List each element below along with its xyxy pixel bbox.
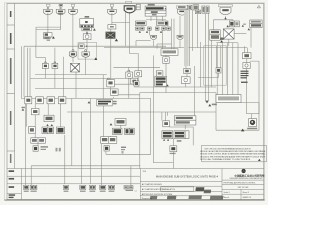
wire C1 feed L — [113, 66, 160, 68]
ch3 box M2 — [163, 121, 170, 127]
wire v x71.8 — [71, 98, 73, 165]
wire B10 drop a — [243, 46, 245, 53]
block B2 multi-cell — [80, 16, 94, 28]
row box RB1 — [25, 97, 32, 104]
ch3 dark cluster A — [162, 131, 173, 139]
fold mark triangle top-right — [257, 5, 260, 8]
terminal T4 — [108, 4, 117, 15]
wire v x64.8 — [64, 135, 66, 184]
strip divider 3 — [7, 93, 15, 95]
bottom border emphasis — [4, 199, 264, 201]
wire h y157.9 — [106, 153, 151, 155]
wire B2 to B4 — [86, 31, 88, 34]
pair box P2 — [52, 62, 58, 69]
wire flag1 drop — [153, 40, 155, 46]
block B5 xbox — [106, 32, 118, 41]
ch1 wide box K4 — [31, 138, 46, 143]
wire v x132 — [130, 166, 132, 186]
company logo — [242, 169, 246, 173]
wire v x37.5 — [35, 46, 37, 57]
block B1 — [44, 33, 55, 41]
title left rule 1 — [140, 180, 222, 182]
header cell text W2 — [9, 186, 15, 188]
block B8 — [157, 21, 168, 26]
strip label 2 — [10, 33, 12, 44]
ch1 dark pair A — [42, 127, 54, 134]
wire gear in — [251, 114, 253, 119]
box D6 — [184, 68, 190, 73]
dark triangle N2 — [241, 129, 244, 132]
history sub-box — [161, 187, 194, 191]
junction dot — [86, 46, 87, 47]
narrow box a — [202, 6, 205, 13]
wire h y94.8 — [118, 94, 140, 96]
terminal T2 — [56, 4, 65, 15]
wire band to b183 — [185, 66, 187, 68]
band cluster 5 — [89, 185, 95, 192]
block B9 — [226, 21, 245, 27]
wire flag2 drop — [179, 40, 181, 47]
box D0 top — [161, 49, 178, 56]
band cluster 1 — [24, 185, 29, 192]
wire box161 link — [165, 55, 167, 56]
wire h y98.4 — [21, 97, 150, 99]
flag F2 mid — [177, 35, 183, 39]
left binding strip line — [14, 4, 16, 169]
minibox row m4 — [155, 27, 159, 30]
wire v x24 — [23, 46, 25, 97]
table header divider — [21, 169, 23, 200]
wire T6 drop — [179, 16, 181, 35]
band cluster 8 — [124, 186, 133, 191]
box D1 circle — [163, 57, 169, 64]
scan noise overlay — [0, 0, 1, 1]
right col box R1 — [242, 53, 251, 59]
wire mini3 to flag — [148, 30, 150, 35]
wire comb v1 — [216, 43, 218, 95]
wire v x196.5 — [194, 66, 196, 116]
wire h y165 — [31, 165, 140, 167]
wire h y74.6 — [35, 74, 107, 76]
wire v x101.5 — [102, 106, 104, 137]
right col box R2 — [243, 63, 250, 69]
strip divider 1 — [7, 24, 15, 26]
header cell text BL/T — [9, 178, 15, 180]
block B10 — [248, 20, 263, 30]
gray bus band — [184, 10, 189, 66]
wire h y40.6 — [136, 40, 151, 42]
wire B4 drop — [86, 40, 88, 50]
flag F3 lower — [69, 50, 76, 58]
wire bus y47.6 — [104, 47, 247, 49]
wire mini5 down — [161, 30, 163, 49]
wire v x110.5 — [110, 136, 112, 137]
wire T4 drop — [111, 13, 113, 25]
box D7 circle — [181, 77, 190, 84]
wire D0 feed corner — [157, 43, 172, 45]
title right rule 3 — [222, 188, 264, 190]
wire h y19.8 — [213, 19, 233, 21]
ch1 dark pair B — [57, 127, 65, 134]
wire B11 drop — [210, 40, 212, 87]
wire h y161 — [153, 162, 173, 164]
block B12 xbox — [220, 29, 234, 43]
title block main divider — [221, 169, 223, 200]
wire B10 drop b — [246, 48, 248, 53]
row box RB3 — [47, 97, 55, 104]
wire h y56 — [36, 57, 46, 59]
border outer trim — [4, 3, 264, 200]
ch2 small dark L3 — [104, 146, 126, 154]
strip label 4 — [10, 111, 12, 125]
block B7 — [135, 21, 146, 26]
row box RB4 — [58, 97, 66, 104]
terminal T5 — [124, 1, 140, 13]
small box inside E2 — [79, 44, 84, 48]
wire pair out b — [54, 69, 56, 89]
wire v x27.5 — [27, 48, 29, 97]
wire bigbox in — [215, 93, 217, 131]
wire B3 to B5 — [110, 29, 112, 32]
narrow box b — [206, 6, 209, 13]
table rule top full width — [7, 168, 264, 170]
wire v x104.5 — [105, 151, 107, 154]
wire v x213.4 — [212, 20, 214, 30]
band cluster 7 — [108, 185, 114, 192]
ch1 box K2 — [44, 115, 54, 126]
block B6 table — [145, 4, 166, 16]
wire gearbox col — [172, 152, 174, 169]
minibox row m5b — [167, 27, 171, 30]
box C1 circletop — [126, 70, 133, 78]
wire T5 drop a — [125, 12, 127, 46]
wire v x25.4 — [24, 104, 26, 185]
block B2 sub — [82, 28, 96, 31]
wire B5 drop — [110, 39, 112, 80]
ch3 tablebox M1 — [174, 116, 196, 125]
arrow m6 — [139, 31, 141, 33]
wire h y88.4 — [35, 87, 110, 89]
terminal T1 — [44, 4, 53, 15]
right col note lines — [241, 71, 249, 83]
header cell text L+PS — [9, 170, 15, 172]
pair box P1 — [42, 62, 48, 69]
cluster D5 dark stack — [155, 76, 169, 86]
wire T1 drop — [47, 13, 49, 33]
wire h y78.4 — [30, 77, 126, 79]
flag F4 lower — [82, 50, 90, 58]
big comb box G — [216, 95, 241, 103]
wire v x30b — [34, 104, 36, 109]
wire v x31.2 — [30, 166, 32, 186]
wire B6 drop 2 — [156, 16, 158, 21]
minibox row m5 — [162, 27, 166, 30]
wire b183 link — [186, 74, 188, 77]
gear box N1 — [247, 119, 257, 130]
wire h y87 — [134, 86, 216, 88]
wire b134 link — [137, 77, 139, 81]
minibox row m1 — [136, 27, 140, 30]
wire b71 out — [128, 78, 130, 98]
wire b181 out — [185, 83, 187, 87]
title block left edge — [139, 169, 141, 200]
wire C1 out — [128, 79, 130, 85]
title right rule 4 — [222, 193, 264, 195]
wire v x103.2 — [102, 75, 104, 106]
terminal T6 — [176, 6, 188, 15]
wire h y84.2 — [114, 83, 134, 85]
ch3 small box M3 — [170, 146, 177, 154]
wire h y89.7 — [140, 92, 216, 94]
minibox row m3 — [148, 27, 152, 30]
wire v x247 — [246, 68, 248, 113]
corner triangle A1 — [94, 57, 97, 60]
signature 4 — [210, 196, 224, 200]
ch2 wide box L2 — [101, 137, 117, 144]
logo inner mark — [243, 170, 245, 173]
ch1 small dark K5 — [33, 146, 61, 152]
wire comb v2 — [221, 43, 223, 95]
wire rightcol out — [246, 59, 248, 63]
block B3 — [108, 25, 116, 29]
box D4 — [156, 71, 163, 76]
stamp scribble 2 — [204, 190, 212, 194]
wire B6 drop 1 — [150, 16, 152, 21]
ch2 dark pair B — [125, 128, 135, 134]
wire B12 drop — [228, 39, 230, 46]
band cluster 6 — [100, 185, 106, 192]
wire v x36 — [35, 27, 37, 46]
signature 1 — [150, 196, 157, 199]
header cell text bottom line2 — [9, 197, 14, 198]
wire pair drop a — [44, 58, 46, 64]
enclosure F — [204, 46, 226, 85]
wire comb v3 — [227, 43, 229, 95]
signature 3 — [188, 195, 202, 199]
flag F1 mid — [151, 35, 157, 39]
table rule 4 left header — [7, 192, 22, 194]
wire v x171.5 — [171, 19, 173, 49]
topright box c — [195, 10, 200, 14]
wire comb top — [216, 42, 237, 44]
wire b79 link — [110, 87, 112, 90]
wire b89 out — [113, 97, 115, 99]
wire v x141.6 — [150, 98, 152, 154]
band cluster 3 — [63, 185, 68, 192]
wire narrowbox drop b — [207, 13, 209, 101]
wire T7 stub — [225, 16, 227, 20]
title right rule 2 — [222, 183, 264, 185]
wire v x233 — [232, 20, 234, 28]
wire bus y46 — [24, 45, 166, 47]
border inner frame — [7, 4, 264, 200]
title left rule 4 — [140, 195, 222, 197]
strip label 3 — [10, 58, 12, 84]
row box RB2 — [36, 97, 44, 104]
wire box161 out — [165, 63, 167, 87]
strip divider 2 — [7, 48, 15, 50]
wire T3 drop — [72, 13, 74, 50]
wire v x174 — [173, 19, 175, 49]
strip label 5 — [10, 154, 12, 163]
xbox X2 — [71, 63, 80, 72]
band cluster 4 — [80, 185, 86, 192]
wire xbox out — [75, 71, 77, 98]
label triangle H — [208, 104, 217, 107]
wire v x30 — [29, 48, 31, 97]
strip divider 4 — [7, 150, 15, 152]
box D2 circle — [135, 71, 142, 77]
wire cluster out — [165, 86, 167, 92]
wire v x193.4 — [191, 10, 193, 51]
ch3 dark cluster B — [163, 131, 189, 142]
wire v x197.3 — [196, 14, 198, 48]
wire comb v4 — [232, 43, 234, 95]
minibox row m2 — [141, 27, 145, 30]
terminal T7 — [218, 4, 232, 19]
block B4 — [83, 32, 91, 39]
wide label box RB5 — [88, 99, 117, 106]
title left rule 3 — [140, 191, 222, 193]
wire v x21.3 — [20, 46, 22, 98]
notes end triangle — [258, 159, 261, 161]
wire v x136.5 — [139, 93, 141, 169]
wire flagbox drop a — [72, 58, 74, 63]
wire pair out a — [44, 69, 46, 79]
notes outline box — [202, 145, 267, 161]
table rule 2 — [7, 175, 140, 177]
wire T2 drop — [60, 13, 62, 30]
ch1 box K1 — [32, 109, 40, 115]
wire v x190.8 — [189, 10, 191, 66]
ch1 box K3 — [29, 127, 36, 134]
wire narrowbox drop a — [204, 13, 206, 101]
box B-mid dotted — [131, 78, 138, 84]
title right column divider — [240, 189, 242, 199]
wire h y116 — [247, 113, 260, 115]
wire cluster2 stub — [172, 139, 174, 146]
box C3 — [111, 89, 119, 95]
signature 2 — [167, 196, 177, 200]
wire T5 drop b — [130, 12, 139, 71]
wire flagbox drop b — [85, 58, 87, 75]
ch2 box L1 — [110, 119, 126, 126]
ch1 tri label — [22, 107, 25, 111]
topright box pair a — [188, 5, 192, 10]
stamp scribble dark — [195, 187, 204, 191]
terminal T3 — [69, 4, 78, 15]
wire v x90.5 — [90, 98, 92, 184]
strip label 1 — [10, 11, 12, 17]
tall box F1 — [216, 46, 221, 73]
topright box pair b — [193, 5, 199, 10]
box C2 — [107, 78, 115, 87]
wire h y30 — [36, 26, 61, 28]
wire pair drop b — [54, 48, 56, 63]
wire h y127 — [169, 126, 193, 128]
wire comb v5 — [237, 43, 239, 95]
band cluster 2 — [30, 185, 37, 192]
wire v x146.7 — [152, 55, 154, 162]
wire B6 drop 3 — [161, 16, 163, 21]
wire v x185.2 — [184, 125, 186, 129]
block B11 — [210, 30, 220, 40]
title right rule 1 — [222, 179, 264, 181]
wire h y112 — [67, 111, 216, 113]
title left rule 2 — [140, 185, 222, 187]
enclosure E2 — [78, 43, 97, 60]
header cell text bottom line1 — [9, 194, 16, 196]
box D3 dark — [134, 81, 139, 86]
table rule 3 — [7, 183, 140, 185]
wire v x81.5 — [81, 112, 83, 184]
ch2 dark pair A — [113, 128, 123, 134]
